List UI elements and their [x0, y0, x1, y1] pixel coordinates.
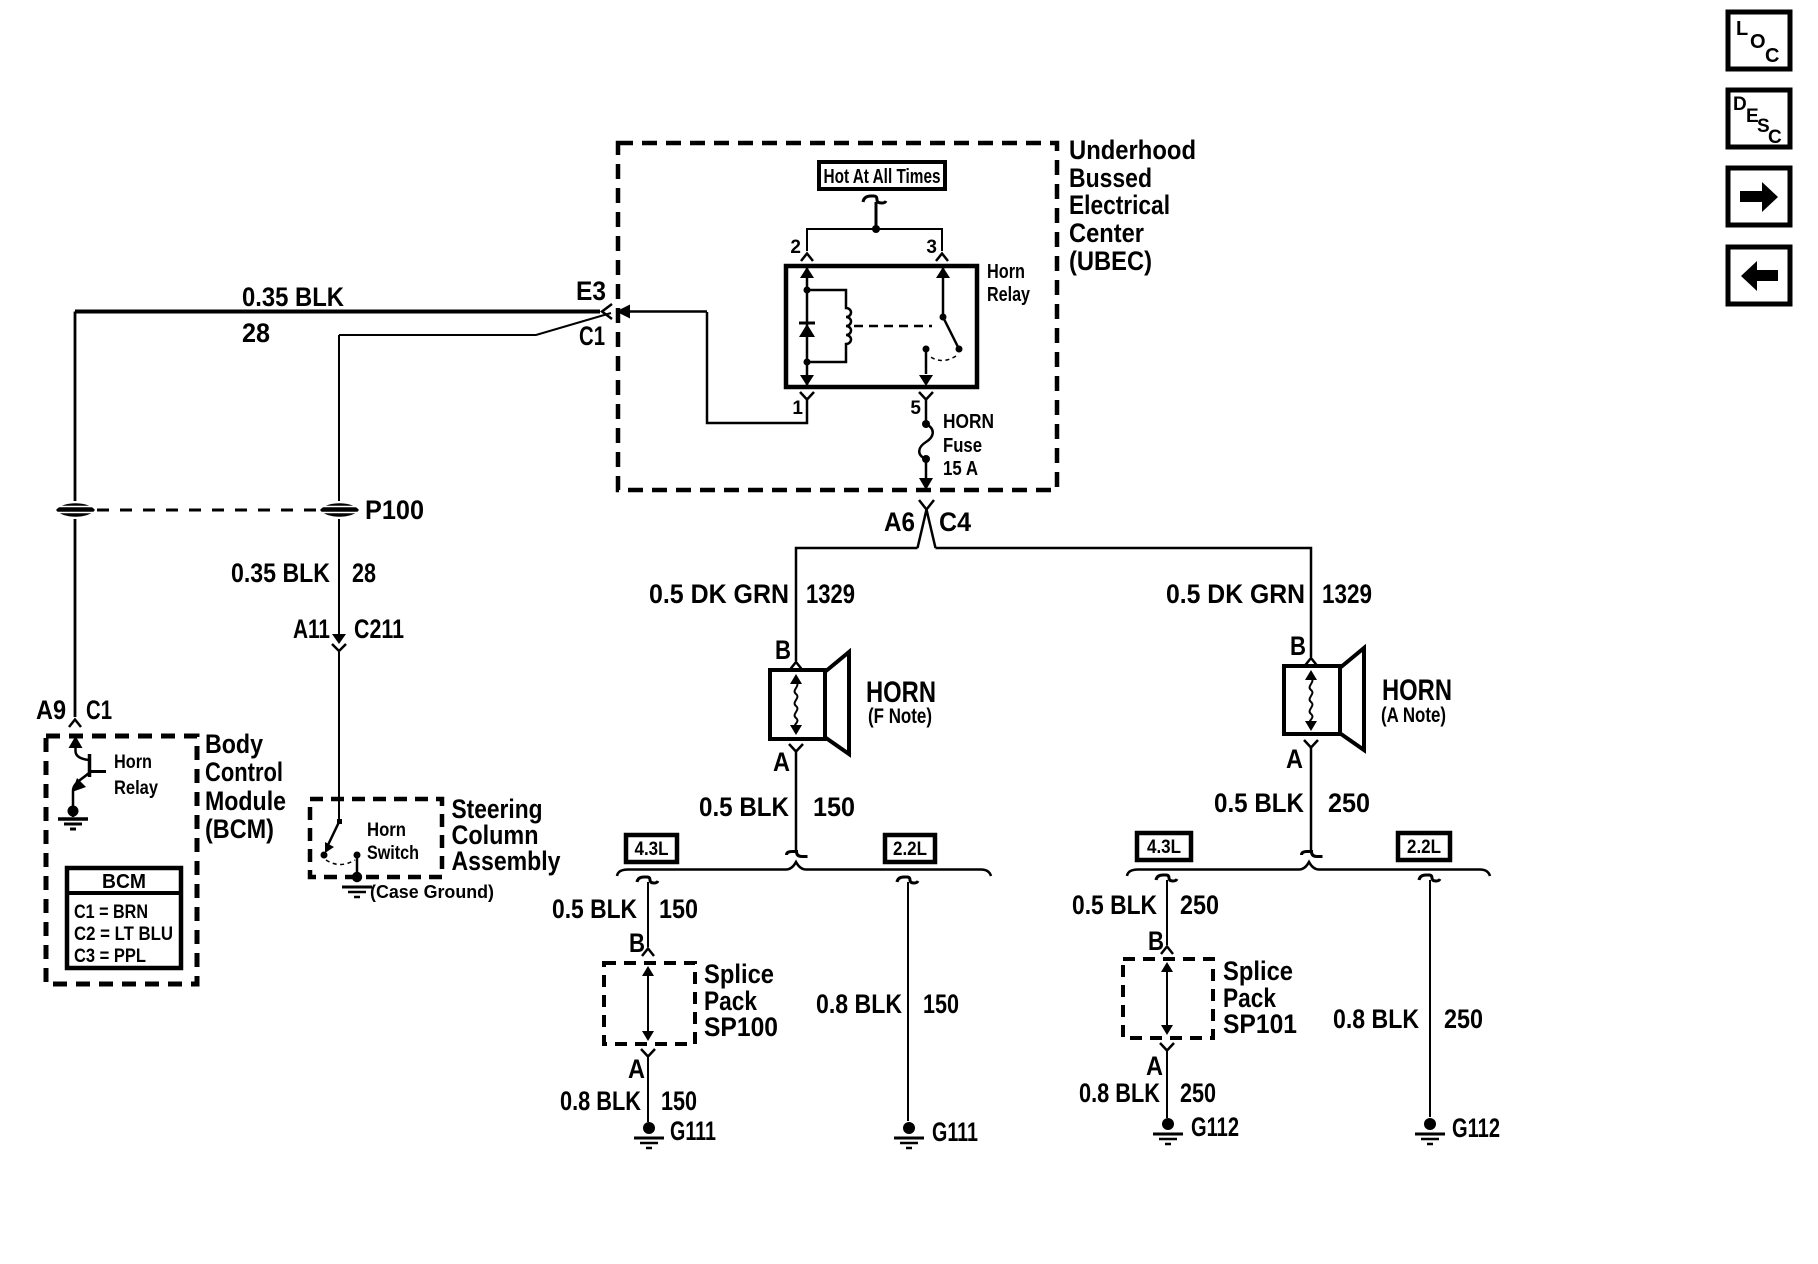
splice pack SP101 internal link — [1161, 962, 1173, 1035]
svg-text:0.8 BLK: 0.8 BLK — [1079, 1078, 1160, 1108]
C211 connector male arrow down — [332, 634, 346, 644]
splice A Y — [641, 1049, 655, 1057]
horn A cone — [1341, 648, 1364, 750]
relay switch blade — [943, 317, 958, 347]
left vertical wire (to BCM) — [74, 312, 77, 502]
svg-text:0.5 BLK: 0.5 BLK — [1214, 788, 1304, 818]
horn relay label — [987, 261, 1031, 306]
svg-text:G112: G112 — [1191, 1112, 1239, 1142]
transistor label — [114, 752, 158, 799]
svg-text:C1: C1 — [579, 321, 605, 351]
svg-text:Relay: Relay — [987, 284, 1031, 306]
relay coil loop with winding — [807, 290, 851, 362]
svg-text:0.5 DK GRN: 0.5 DK GRN — [649, 579, 789, 609]
wire tap to splice pack SP101 — [1166, 880, 1168, 945]
bus tap symbol under Hot At All Times — [863, 196, 886, 203]
svg-text:15 A: 15 A — [943, 458, 978, 480]
svg-text:0.5 BLK: 0.5 BLK — [1072, 890, 1157, 920]
UBEC label — [1069, 135, 1196, 276]
svg-text:0.8 BLK: 0.8 BLK — [560, 1086, 641, 1116]
splice pack SP101 dashed box — [1123, 959, 1213, 1038]
svg-text:C: C — [1768, 127, 1782, 148]
svg-text:Hot At All Times: Hot At All Times — [824, 166, 941, 188]
svg-text:P100: P100 — [365, 495, 424, 525]
horn F body box — [770, 670, 825, 739]
splice B chevron — [642, 949, 654, 957]
wire pin1 to E3 connector — [707, 312, 807, 423]
svg-text:250: 250 — [1444, 1004, 1483, 1034]
dashed pass-through line — [97, 509, 318, 512]
relay switch blade end node — [956, 346, 963, 353]
LOC button box — [1728, 12, 1790, 69]
svg-text:150: 150 — [813, 792, 855, 822]
horn F terminal B chevron — [790, 662, 802, 670]
A6/C4 connector X — [918, 500, 936, 548]
svg-text:Body: Body — [205, 729, 263, 759]
HORN fuse label — [943, 411, 994, 480]
arrow at UBEC border — [919, 478, 933, 490]
svg-text:Bussed: Bussed — [1069, 163, 1152, 193]
wire 2.2L to ground G111 — [907, 882, 909, 1121]
svg-text:2.2L: 2.2L — [1407, 837, 1441, 858]
svg-text:150: 150 — [923, 989, 959, 1019]
svg-text:C3 = PPL: C3 = PPL — [74, 946, 146, 967]
svg-text:2: 2 — [790, 237, 801, 258]
wire pin5 to fuse — [925, 400, 928, 424]
horn switch label — [367, 820, 419, 864]
diagonal wire from horn switch to E3 connector — [339, 313, 611, 335]
wire 2.2L to ground G112 — [1429, 880, 1431, 1117]
engine option brace (right) — [1127, 862, 1490, 876]
svg-text:A: A — [628, 1054, 645, 1084]
svg-text:G112: G112 — [1452, 1113, 1500, 1143]
ground G111 (2.2L) — [894, 1122, 924, 1148]
svg-text:C: C — [1765, 45, 1779, 67]
HORN fuse 15A — [919, 420, 933, 463]
svg-text:Underhood: Underhood — [1069, 135, 1196, 165]
svg-text:D: D — [1733, 94, 1747, 115]
relay clamp diode — [799, 322, 815, 325]
horn A terminal A Y — [1304, 740, 1318, 748]
wire switch branch vertical upper — [338, 335, 340, 501]
relay switch output wire — [925, 349, 928, 374]
svg-text:A6: A6 — [884, 507, 915, 537]
BCM label — [205, 729, 286, 844]
svg-text:28: 28 — [352, 558, 376, 588]
svg-text:0.35 BLK: 0.35 BLK — [231, 558, 330, 588]
horn F cone — [826, 652, 849, 754]
BCM horn relay driver transistor — [69, 736, 107, 806]
svg-text:G111: G111 — [932, 1117, 978, 1147]
svg-text:150: 150 — [659, 894, 698, 924]
2.2L tag (left) — [885, 835, 935, 862]
horn switch blade — [321, 819, 343, 859]
pin 5 connector Y — [919, 392, 933, 400]
svg-text:0.5 BLK: 0.5 BLK — [699, 792, 789, 822]
forward arrow button — [1728, 168, 1790, 225]
svg-text:B: B — [1290, 631, 1306, 661]
svg-text:Horn: Horn — [114, 752, 152, 773]
DESC button box — [1728, 90, 1790, 147]
svg-text:250: 250 — [1180, 890, 1219, 920]
2.2L tag (right) — [1398, 833, 1450, 860]
svg-text:3: 3 — [926, 237, 937, 258]
svg-text:HORN: HORN — [943, 411, 994, 433]
horn A coil — [1305, 670, 1317, 731]
splice pack SP100 dashed box — [604, 963, 695, 1044]
svg-text:B: B — [775, 635, 791, 665]
4.3L tag (left) — [626, 835, 677, 862]
svg-text:SP100: SP100 — [704, 1012, 778, 1042]
wire tap to splice pack SP100 — [647, 882, 649, 947]
engine option brace (left) — [617, 862, 991, 876]
svg-text:BCM: BCM — [102, 871, 146, 893]
A9/C1 connector chevron — [69, 720, 81, 728]
wire 0.35 BLK 28 horizontal — [75, 310, 600, 314]
horn feed bus left — [796, 548, 918, 661]
splice tap 2.2L (left) — [897, 877, 918, 883]
horn A terminal B chevron — [1305, 658, 1317, 666]
ground G111 (4.3L) — [634, 1122, 664, 1148]
horn relay box — [786, 266, 977, 387]
BCM dashed box — [46, 736, 197, 984]
svg-text:SP101: SP101 — [1223, 1009, 1297, 1039]
svg-text:A11: A11 — [293, 614, 330, 644]
C211 connector female chevron — [332, 644, 346, 651]
svg-text:A: A — [773, 747, 790, 777]
svg-text:Fuse: Fuse — [943, 435, 982, 457]
svg-text:C211: C211 — [354, 614, 404, 644]
wire from bus tap down — [875, 202, 878, 229]
svg-text:0.8 BLK: 0.8 BLK — [816, 989, 902, 1019]
E3 connector chevron — [602, 304, 612, 319]
relay coil bottom node — [804, 359, 811, 366]
wire horn F ground lead — [795, 752, 798, 851]
svg-text:0.8 BLK: 0.8 BLK — [1333, 1004, 1419, 1034]
svg-text:(BCM): (BCM) — [205, 814, 274, 844]
BCM internal ground — [58, 806, 88, 830]
splice pack SP100 internal link — [642, 966, 654, 1041]
junction node on bus — [872, 225, 880, 233]
bus wire to pins 2 and 3 — [807, 229, 942, 251]
svg-text:0.5 BLK: 0.5 BLK — [552, 894, 637, 924]
svg-text:Horn: Horn — [367, 820, 406, 841]
relay pin3 internal arrow up — [936, 267, 950, 278]
svg-text:(A Note): (A Note) — [1381, 704, 1446, 727]
C1 connector arrow (male, pointing left) — [616, 305, 630, 319]
svg-text:Splice: Splice — [704, 959, 774, 989]
grommet (left) — [56, 503, 95, 517]
svg-text:(UBEC): (UBEC) — [1069, 246, 1152, 276]
splice tap 2.2L (right) — [1419, 875, 1440, 881]
ground G112 (4.3L) — [1153, 1118, 1183, 1144]
svg-text:1329: 1329 — [1322, 579, 1372, 609]
svg-text:HORN: HORN — [1382, 674, 1452, 707]
relay pin2 internal arrow up — [800, 267, 814, 278]
svg-text:Assembly: Assembly — [452, 846, 561, 876]
svg-text:1: 1 — [792, 398, 803, 419]
wire fuse to UBEC border — [925, 459, 928, 478]
relay actuation dashed link — [854, 325, 932, 328]
svg-text:C1 = BRN: C1 = BRN — [74, 902, 148, 923]
svg-text:250: 250 — [1328, 788, 1370, 818]
svg-text:250: 250 — [1180, 1078, 1216, 1108]
relay pin1 internal arrow down — [800, 375, 814, 386]
splice pack SP100 label — [704, 959, 778, 1042]
wire splice to ground G112 — [1166, 1051, 1168, 1118]
svg-text:E3: E3 — [576, 276, 606, 306]
svg-text:150: 150 — [661, 1086, 697, 1116]
relay coil top node — [804, 287, 811, 294]
splice tap 4.3L (right) — [1156, 875, 1177, 881]
svg-text:(F Note): (F Note) — [868, 705, 932, 728]
steering column dashed box — [310, 799, 442, 877]
svg-text:Horn: Horn — [987, 261, 1025, 283]
svg-text:Electrical: Electrical — [1069, 190, 1170, 220]
svg-text:C4: C4 — [939, 507, 971, 537]
svg-text:Switch: Switch — [367, 843, 419, 864]
relay switch pivot node — [940, 314, 947, 321]
svg-text:0.5 DK GRN: 0.5 DK GRN — [1166, 579, 1305, 609]
relay coil branch vertical wire — [806, 268, 809, 385]
relay switch output contact node — [923, 346, 930, 353]
wire horn A ground lead — [1310, 748, 1313, 851]
pin 2 connector chevron — [801, 254, 813, 262]
svg-text:Module: Module — [205, 786, 286, 816]
horn F coil — [790, 674, 802, 735]
horn switch fixed contact — [354, 852, 361, 859]
wire C1 arrow into UBEC — [628, 310, 707, 313]
wire splice to ground G111 — [647, 1057, 649, 1122]
svg-text:C2 = LT BLU: C2 = LT BLU — [74, 924, 173, 945]
pin 1 connector Y — [800, 392, 814, 400]
relay switch travel dashed arc — [929, 356, 956, 361]
svg-text:(Case Ground): (Case Ground) — [370, 882, 494, 902]
svg-text:A: A — [1146, 1051, 1163, 1081]
svg-text:4.3L: 4.3L — [1147, 837, 1181, 858]
svg-text:2.2L: 2.2L — [893, 839, 927, 860]
svg-text:Control: Control — [205, 757, 283, 787]
svg-text:1329: 1329 — [806, 579, 855, 609]
Hot At All Times box — [819, 162, 945, 189]
svg-text:C1: C1 — [86, 695, 112, 725]
svg-text:Relay: Relay — [114, 778, 158, 799]
back arrow button — [1728, 247, 1790, 304]
svg-text:G111: G111 — [670, 1116, 716, 1146]
UBEC dashed box — [618, 143, 1057, 490]
BCM connector table — [67, 868, 181, 968]
case ground symbol — [342, 872, 372, 897]
splice B chevron (right) — [1161, 947, 1173, 955]
svg-text:L: L — [1736, 18, 1748, 40]
wire left BCM vertical lower — [74, 519, 77, 717]
steering column label — [452, 794, 561, 876]
svg-text:Center: Center — [1069, 218, 1144, 248]
svg-text:0.35 BLK: 0.35 BLK — [242, 282, 344, 312]
svg-text:O: O — [1750, 31, 1766, 53]
splice tap 4.3L (left) — [637, 877, 658, 883]
DESC button letters — [1733, 94, 1782, 148]
LOC button letters — [1736, 18, 1779, 67]
svg-text:A: A — [1286, 744, 1303, 774]
horn A body box — [1284, 666, 1340, 734]
wire contact to case ground — [356, 855, 359, 874]
4.3L tag (right) — [1137, 833, 1191, 860]
relay switch common wire from pin 3 — [942, 268, 945, 317]
pin 3 connector chevron — [936, 254, 948, 262]
svg-text:4.3L: 4.3L — [635, 839, 669, 860]
splice A Y (right) — [1160, 1043, 1174, 1051]
svg-text:Splice: Splice — [1223, 956, 1293, 986]
horn F terminal A Y — [789, 744, 803, 752]
relay pin5 internal arrow down — [919, 375, 933, 386]
svg-text:28: 28 — [242, 318, 270, 348]
wire C211 to horn switch — [338, 652, 340, 822]
horn feed bus right — [936, 548, 1312, 657]
ground G112 (2.2L) — [1415, 1118, 1445, 1144]
horn switch travel dashed arc — [326, 860, 355, 865]
svg-text:A9: A9 — [36, 695, 66, 725]
grommet P100 — [320, 503, 359, 517]
splice pack SP101 label — [1223, 956, 1297, 1039]
wire switch branch below grommet — [338, 519, 340, 636]
svg-text:5: 5 — [910, 398, 921, 419]
